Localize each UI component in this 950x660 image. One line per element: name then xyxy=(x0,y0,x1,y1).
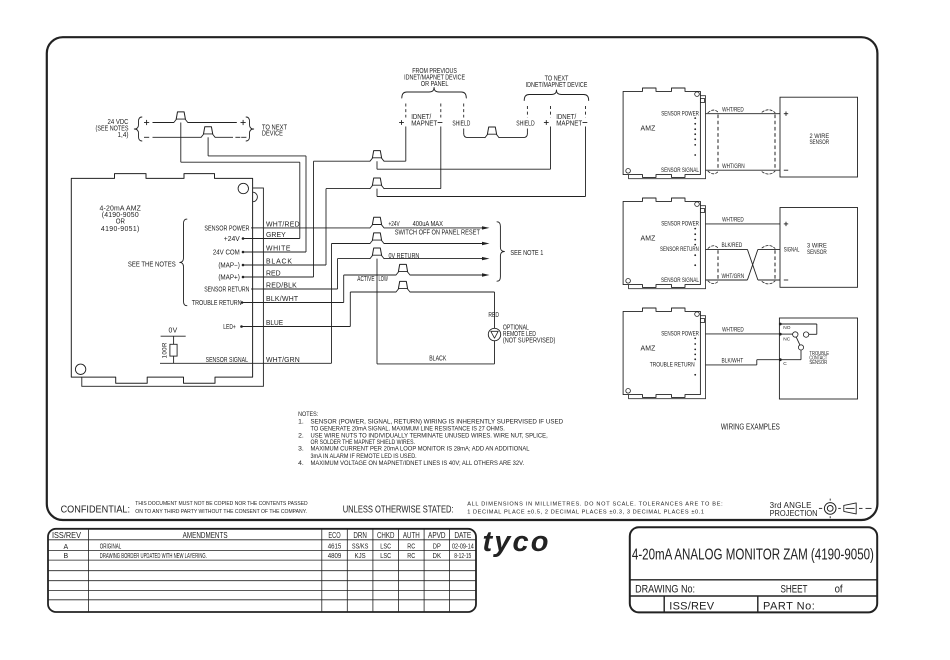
riser sensor signal to switch-off row xyxy=(331,244,333,364)
brace over from-previous group xyxy=(402,88,467,99)
AMZ example grommet notch xyxy=(700,318,704,322)
svg-text:LSC: LSC xyxy=(380,553,391,561)
wire SENSOR RETURN RED/BLK row xyxy=(263,288,337,290)
terminal - 24VDC left xyxy=(144,136,149,138)
AMZ example grommet notch xyxy=(700,208,704,212)
svg-text:WHT/RED: WHT/RED xyxy=(722,217,744,224)
dashed cable screen ex2 xyxy=(717,250,719,279)
svg-text:02-09-14: 02-09-14 xyxy=(452,543,474,551)
AMZ example terminal dots xyxy=(694,228,696,230)
svg-text:of: of xyxy=(835,584,843,596)
svg-text:SENSOR POWER: SENSOR POWER xyxy=(661,111,699,118)
module mounting hole bottom-left xyxy=(75,364,85,374)
brace see note 1 xyxy=(497,222,504,281)
brace see-the-notes xyxy=(180,219,187,306)
svg-text:KJS: KJS xyxy=(355,553,367,560)
svg-text:400uA MAX: 400uA MAX xyxy=(413,221,444,229)
svg-text:AMZ: AMZ xyxy=(640,126,655,133)
wire TROUBLE RETURN BLK/WHT row xyxy=(263,302,343,304)
svg-text:SWITCH OFF ON PANEL RESET: SWITCH OFF ON PANEL RESET xyxy=(395,229,480,237)
svg-text:SENSOR SIGNAL: SENSOR SIGNAL xyxy=(661,167,699,174)
svg-text:B: B xyxy=(63,553,68,560)
wire idnet nut row 1 xyxy=(314,160,371,162)
dashed wire idnet- to next xyxy=(585,106,587,118)
svg-text:4.: 4. xyxy=(298,460,304,467)
svg-text:IDNET/MAPNET DEVICE: IDNET/MAPNET DEVICE xyxy=(526,81,588,89)
riser trouble return to active low row xyxy=(343,275,345,303)
svg-text:NOTES:: NOTES: xyxy=(298,410,318,418)
svg-text:MAXIMUM CURRENT PER 20mA LOOP: MAXIMUM CURRENT PER 20mA LOOP MONITOR IS… xyxy=(311,445,530,453)
svg-text:SHIELD: SHIELD xyxy=(452,121,470,128)
wire drop to to-next - xyxy=(376,189,378,197)
wire BLACK return xyxy=(377,363,495,365)
svg-text:DRN: DRN xyxy=(353,532,366,541)
svg-text:DRAWING No:: DRAWING No: xyxy=(635,584,695,596)
svg-text:AUTH: AUTH xyxy=(403,532,420,541)
svg-text:LED+: LED+ xyxy=(223,325,236,332)
internal sensor signal line xyxy=(160,362,263,364)
svg-text:BLACK: BLACK xyxy=(429,355,446,363)
AMZ example terminal dots xyxy=(694,117,696,119)
svg-text:SENSOR: SENSOR xyxy=(809,140,829,147)
svg-text:MAPNET: MAPNET xyxy=(556,120,582,127)
wire shield link with nut xyxy=(464,134,485,138)
svg-text:OR: OR xyxy=(116,218,125,225)
terminal + 2 wire sensor xyxy=(784,113,788,115)
wire WHT/RED ex1 xyxy=(705,113,780,115)
AMZ example module box xyxy=(623,308,700,397)
svg-text:OR PANEL: OR PANEL xyxy=(421,81,449,89)
wire MAP- BLACK row xyxy=(263,264,326,266)
riser A from 24VDC+ to +24V row xyxy=(299,162,301,238)
wire sensor power row with nut to arrow xyxy=(263,227,370,229)
svg-text:ISS/REV: ISS/REV xyxy=(669,601,714,613)
svg-text:ECO: ECO xyxy=(328,532,341,540)
svg-text:SHEET: SHEET xyxy=(781,583,808,595)
svg-text:NC: NC xyxy=(783,336,790,342)
riser LED+ to led feed row xyxy=(349,292,351,327)
svg-text:4615: 4615 xyxy=(328,543,342,550)
svg-text:CHKD: CHKD xyxy=(377,531,394,540)
wire common to pole circle xyxy=(780,333,792,335)
svg-text:3.: 3. xyxy=(298,445,304,452)
svg-text:THIS DOCUMENT MUST NOT BE COPI: THIS DOCUMENT MUST NOT BE COPIED NOR THE… xyxy=(135,501,308,507)
svg-text:DP: DP xyxy=(433,543,441,551)
wire WHT/GRN ex1 xyxy=(705,169,780,171)
svg-text:0V RETURN: 0V RETURN xyxy=(389,252,420,260)
svg-text:SENSOR RETURN: SENSOR RETURN xyxy=(660,246,699,253)
wire BLK/WHT ex3 xyxy=(705,364,756,366)
svg-text:BLK/WHT: BLK/WHT xyxy=(722,358,744,365)
svg-text:ALL DIMENSIONS IN MILLIMETRES.: ALL DIMENSIONS IN MILLIMETRES. DO NOT SC… xyxy=(467,502,723,508)
svg-text:LOW: LOW xyxy=(379,276,389,283)
riser B from 24VDC- to 24V COM row xyxy=(305,156,307,252)
svg-text:ISS/REV: ISS/REV xyxy=(52,531,82,540)
svg-text:PROJECTION: PROJECTION xyxy=(770,509,818,518)
svg-text:SEE NOTE 1: SEE NOTE 1 xyxy=(510,250,543,258)
svg-text:1 DECIMAL PLACE ±0.5, 2 DECIMA: 1 DECIMAL PLACE ±0.5, 2 DECIMAL PLACES ±… xyxy=(467,510,704,516)
svg-text:+24V: +24V xyxy=(224,236,240,243)
svg-text:A: A xyxy=(63,544,68,551)
wire idnet nut row 2 xyxy=(326,188,370,190)
svg-text:SIGNAL: SIGNAL xyxy=(784,247,800,254)
svg-text:BLK/RED: BLK/RED xyxy=(722,243,743,250)
wire led drop xyxy=(494,292,496,328)
wire WHT/RED ex2 xyxy=(705,223,780,225)
junction dot common xyxy=(779,333,782,336)
svg-text:CONFIDENTIAL:: CONFIDENTIAL: xyxy=(61,504,130,516)
wire NC circle to C terminal xyxy=(800,350,802,360)
riser MAP- to idnet nut row 2 xyxy=(325,189,327,265)
wire WHT/GRN ex2 crossover xyxy=(705,279,747,281)
brace over to-next group xyxy=(524,90,589,101)
grommet arc on backplate xyxy=(253,192,258,202)
AMZ example module box xyxy=(623,198,700,287)
svg-text:SENSOR SIGNAL: SENSOR SIGNAL xyxy=(661,278,699,285)
dashed wire idnet+ to next xyxy=(550,106,552,118)
terminal + 3 wire sensor xyxy=(784,223,788,225)
svg-text:SENSOR: SENSOR xyxy=(807,250,827,257)
wire LED+ BLUE row xyxy=(263,326,350,328)
terminal + to next device xyxy=(241,122,246,124)
svg-text:DEVICE: DEVICE xyxy=(262,130,283,138)
amendments table xyxy=(48,529,476,612)
svg-text:SHIELD: SHIELD xyxy=(516,121,535,128)
svg-text:WHT/GRN: WHT/GRN xyxy=(722,163,745,170)
svg-text:DATE: DATE xyxy=(454,531,471,541)
switch NO circle xyxy=(803,332,808,337)
minus sign idnet right xyxy=(583,122,588,124)
svg-text:SENSOR POWER: SENSOR POWER xyxy=(661,331,699,338)
wire NO contact xyxy=(780,323,817,325)
svg-text:ORIGINAL: ORIGINAL xyxy=(100,544,122,551)
svg-text:RED: RED xyxy=(488,312,499,319)
switch arm xyxy=(796,337,800,345)
AMZ example backplate xyxy=(629,316,706,399)
svg-text:4190-9051): 4190-9051) xyxy=(101,226,140,233)
AMZ example backplate xyxy=(629,96,706,179)
svg-text:SS/KS: SS/KS xyxy=(352,543,368,551)
dashed wire idnet+ from previous xyxy=(405,104,407,118)
wire 24VDC negative with wire nut xyxy=(153,136,202,138)
drawing border frame xyxy=(47,37,878,520)
title block box xyxy=(630,527,877,612)
svg-text:RC: RC xyxy=(407,552,415,560)
wire 0V return row with nut to arrow xyxy=(338,258,371,260)
switch pole circle xyxy=(793,332,798,337)
trouble contact sensor box xyxy=(779,318,857,399)
svg-text:ON TO ANY THIRD PARTY WITHOUT: ON TO ANY THIRD PARTY WITHOUT THE CONSEN… xyxy=(135,509,307,515)
svg-text:NO: NO xyxy=(783,325,790,331)
switch NC circle xyxy=(798,345,803,350)
brace right to-next-device xyxy=(246,117,254,141)
wire drop to to-next + xyxy=(376,161,378,169)
svg-text:DRAWING BORDER UPDATED WITH NE: DRAWING BORDER UPDATED WITH NEW LAYERING… xyxy=(100,553,207,560)
terminal - 2 wire sensor xyxy=(784,169,788,171)
svg-text:DK: DK xyxy=(433,553,442,560)
terminal - 3 wire sensor xyxy=(784,279,788,281)
wire 0V drop from 0V return nut xyxy=(376,259,378,364)
svg-text:(NOT SUPERVISED): (NOT SUPERVISED) xyxy=(503,337,555,345)
svg-text:UNLESS OTHERWISE STATED:: UNLESS OTHERWISE STATED: xyxy=(343,503,454,514)
wire active low row with nut to arrow xyxy=(344,274,396,276)
junction dot NO tap xyxy=(779,323,782,326)
AMZ example mounting holes xyxy=(695,312,700,317)
svg-text:WHT/RED: WHT/RED xyxy=(722,107,744,114)
svg-text:1.: 1. xyxy=(298,419,304,426)
plus sign idnet left xyxy=(399,122,404,124)
svg-text:8-12-15: 8-12-15 xyxy=(454,553,472,560)
dashed wire shield to next xyxy=(526,106,528,118)
svg-text:C: C xyxy=(783,361,787,367)
AMZ example mounting holes xyxy=(695,92,700,97)
svg-text:LSC: LSC xyxy=(380,543,391,551)
dashed cable screen ex1 xyxy=(717,115,719,170)
svg-text:1,4): 1,4) xyxy=(117,132,128,139)
svg-text:24V COM: 24V COM xyxy=(213,249,240,256)
svg-text:SEE THE NOTES: SEE THE NOTES xyxy=(128,261,176,268)
AMZ example backplate xyxy=(629,206,706,289)
svg-text:SENSOR: SENSOR xyxy=(809,360,827,367)
svg-text:RC: RC xyxy=(407,543,415,551)
svg-text:MAPNET: MAPNET xyxy=(411,120,437,127)
svg-text:2.: 2. xyxy=(298,433,304,440)
svg-text:AMZ: AMZ xyxy=(640,236,655,243)
dashed wire shield from previous xyxy=(463,104,465,118)
AMZ example terminal dots xyxy=(694,338,696,340)
svg-text:(MAP−): (MAP−) xyxy=(218,262,239,269)
AMZ backplate mounting plate xyxy=(82,188,264,386)
wire BLK/RED ex2 crossover xyxy=(705,248,747,250)
terminal + 24VDC left xyxy=(144,122,149,124)
svg-text:(MAP+): (MAP+) xyxy=(218,274,239,281)
svg-text:MAXIMUM VOLTAGE ON MAPNET/IDNE: MAXIMUM VOLTAGE ON MAPNET/IDNET LINES IS… xyxy=(311,460,525,468)
svg-text:WHT/GRN: WHT/GRN xyxy=(722,273,745,280)
0V rail line xyxy=(161,335,186,337)
svg-text:TROUBLE RETURN: TROUBLE RETURN xyxy=(192,300,242,308)
dashed wire idnet- from previous xyxy=(440,104,442,118)
wire MAP+ RED row xyxy=(263,276,313,278)
svg-text:AMENDMENTS: AMENDMENTS xyxy=(183,530,228,540)
svg-text:tyco: tyco xyxy=(483,526,551,558)
wire drop from +24VDC nut to riser A xyxy=(180,123,182,163)
wire +24V GREY row xyxy=(263,238,299,240)
AMZ example mounting holes xyxy=(695,202,700,207)
wire 24VDC positive with wire nut xyxy=(153,122,174,124)
AMZ example module box xyxy=(623,88,700,177)
module mounting hole top-right xyxy=(238,183,248,193)
3 wire sensor box xyxy=(780,208,858,288)
svg-text:WHT/RED: WHT/RED xyxy=(722,327,744,334)
svg-text:WIRING EXAMPLES: WIRING EXAMPLES xyxy=(721,422,780,432)
3rd angle projection symbol xyxy=(819,507,822,509)
riser MAP+ to idnet nut row 1 xyxy=(313,161,315,277)
svg-text:4809: 4809 xyxy=(328,553,342,560)
AMZ example grommet notch xyxy=(700,98,704,102)
plus sign idnet right xyxy=(544,122,549,124)
wire SENSOR SIGNAL WHT/GRN row xyxy=(263,362,331,364)
wire led feed row with nut xyxy=(350,291,396,293)
wire 24V COM WHITE row xyxy=(263,251,306,253)
svg-text:APVD: APVD xyxy=(428,530,445,540)
minus sign idnet left xyxy=(438,122,443,124)
2 wire sensor box xyxy=(780,97,858,177)
module 4-20mA AMZ outline with tabs xyxy=(71,174,252,384)
svg-text:AMZ: AMZ xyxy=(640,346,655,353)
svg-text:SENSOR POWER: SENSOR POWER xyxy=(204,225,249,233)
svg-text:TROUBLE RETURN: TROUBLE RETURN xyxy=(650,362,695,369)
svg-text:0V: 0V xyxy=(169,327,178,334)
wire switch-off row with nut to arrow xyxy=(332,243,371,245)
riser sensor return to 0V return row xyxy=(337,259,339,289)
resistor 100R xyxy=(173,336,175,344)
LED symbol xyxy=(488,328,500,340)
svg-text:SENSOR RETURN: SENSOR RETURN xyxy=(204,286,249,294)
svg-text:ACTIVE: ACTIVE xyxy=(357,276,374,283)
wire led cathode down xyxy=(494,341,496,364)
svg-text:PART No:: PART No: xyxy=(763,601,815,613)
dash and terminal - to next device xyxy=(235,136,240,138)
junction dot C xyxy=(779,358,782,361)
wire drop from -24VDC nut to riser B xyxy=(207,137,209,156)
brace left of 24VDC terminals xyxy=(134,117,142,141)
svg-text:+24V: +24V xyxy=(389,222,400,229)
svg-text:100R: 100R xyxy=(162,342,169,359)
svg-text:SENSOR POWER: SENSOR POWER xyxy=(661,221,699,228)
svg-text:4-20mA ANALOG MONITOR ZAM (419: 4-20mA ANALOG MONITOR ZAM (4190-9050) xyxy=(632,545,874,563)
wire WHT/RED ex3 xyxy=(705,333,780,335)
